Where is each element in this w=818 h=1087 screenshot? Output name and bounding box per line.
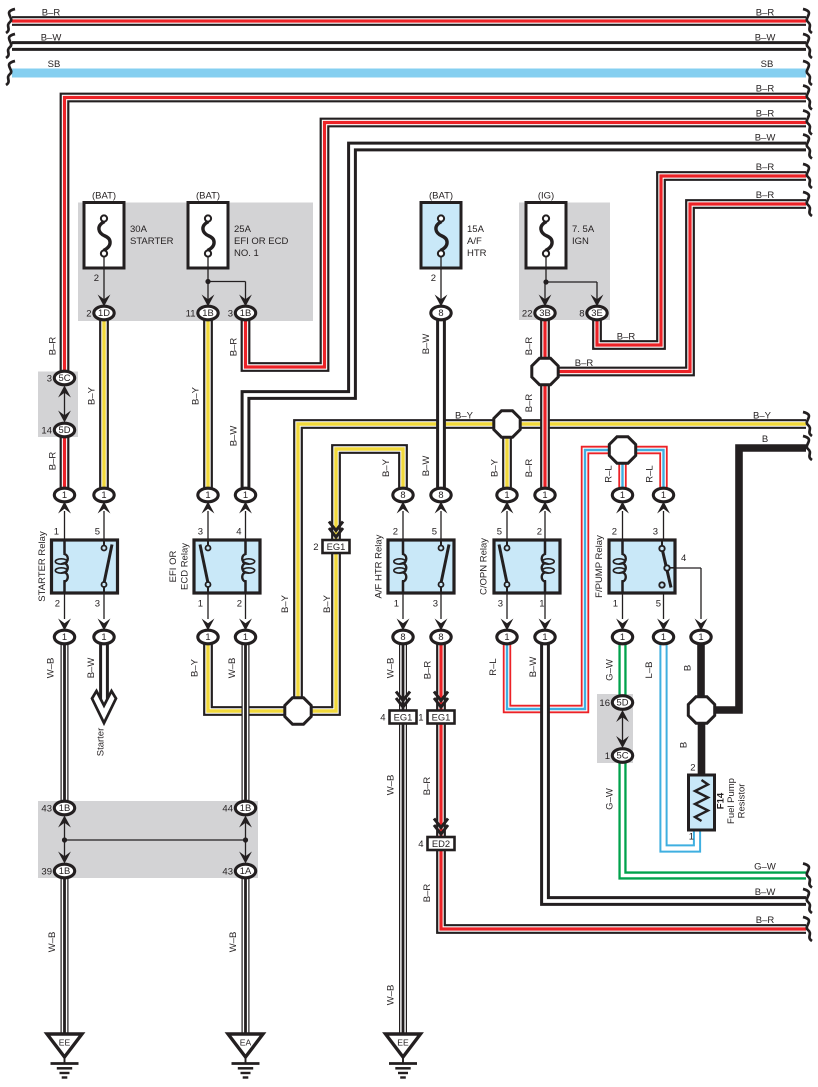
svg-text:B: B bbox=[683, 665, 694, 671]
svg-text:5: 5 bbox=[432, 527, 437, 538]
svg-text:NO. 1: NO. 1 bbox=[234, 248, 259, 259]
svg-text:A/F HTR Relay: A/F HTR Relay bbox=[374, 534, 385, 598]
wire B-Y from fuse 30A/1D bbox=[99, 318, 109, 495]
wire W-B A/F relay to EG1/ground bbox=[399, 640, 407, 1034]
svg-text:1: 1 bbox=[542, 489, 547, 500]
splice node splice E3 (R-L) bbox=[609, 437, 635, 463]
svg-text:15A: 15A bbox=[467, 224, 485, 235]
svg-text:1: 1 bbox=[539, 599, 544, 610]
svg-text:1B: 1B bbox=[59, 802, 70, 813]
svg-text:1: 1 bbox=[62, 631, 67, 642]
svg-text:3B: 3B bbox=[539, 307, 550, 318]
connector F/PUMP pin4 conn bbox=[691, 630, 711, 644]
connector 8 (fuse 15A out) bbox=[431, 306, 451, 320]
svg-text:7. 5A: 7. 5A bbox=[572, 224, 595, 235]
connector F/PUMP pin1 conn bbox=[612, 630, 632, 644]
wire B-R feed left (to 5C) bbox=[65, 98, 807, 373]
svg-text:SB: SB bbox=[48, 59, 61, 70]
svg-text:W–B: W–B bbox=[386, 658, 397, 679]
svg-text:3: 3 bbox=[228, 309, 233, 320]
svg-text:1: 1 bbox=[504, 489, 509, 500]
svg-text:Starter: Starter bbox=[96, 728, 107, 757]
svg-text:1: 1 bbox=[243, 631, 248, 642]
svg-text:W–B: W–B bbox=[228, 932, 239, 953]
svg-text:1: 1 bbox=[101, 489, 106, 500]
svg-text:W–B: W–B bbox=[46, 658, 57, 679]
svg-text:ECD Relay: ECD Relay bbox=[180, 543, 191, 590]
svg-text:5D: 5D bbox=[59, 424, 71, 435]
svg-text:2: 2 bbox=[86, 309, 91, 320]
svg-text:1: 1 bbox=[620, 631, 625, 642]
svg-text:1: 1 bbox=[394, 599, 399, 610]
svg-text:B–R: B–R bbox=[756, 190, 775, 201]
wire break marks right bbox=[803, 9, 812, 941]
svg-text:1D: 1D bbox=[98, 307, 110, 318]
wire B main feed bbox=[716, 448, 806, 710]
wire B splice to resistor bbox=[698, 721, 706, 777]
svg-text:2: 2 bbox=[55, 599, 60, 610]
svg-text:4: 4 bbox=[236, 527, 241, 538]
svg-text:B–W: B–W bbox=[41, 33, 62, 44]
svg-text:B–Y: B–Y bbox=[381, 458, 392, 477]
wire B-R feed (to IGN 3B splice) bbox=[545, 204, 806, 372]
wire G-W F/PUMP to 5D bbox=[618, 640, 626, 699]
connector 5D cavity 16 bbox=[612, 696, 632, 710]
svg-text:4: 4 bbox=[380, 713, 385, 724]
svg-text:25A: 25A bbox=[234, 224, 252, 235]
splice node splice E1 (B-R) bbox=[532, 358, 558, 384]
wire bottom link right bbox=[245, 820, 247, 859]
connector 1B cavity 3 bbox=[235, 306, 255, 320]
connector 1B cavity 39 bbox=[54, 864, 74, 878]
connector EFI pin2 conn bbox=[235, 630, 255, 644]
fuse F1 30A STARTER bbox=[84, 203, 124, 269]
svg-text:4: 4 bbox=[681, 553, 686, 564]
svg-text:B–Y: B–Y bbox=[322, 594, 333, 613]
wire B-R from IGN 3B bbox=[540, 318, 550, 495]
connector A/F pin3 conn bbox=[431, 630, 451, 644]
svg-text:14: 14 bbox=[41, 426, 52, 437]
svg-text:22: 22 bbox=[522, 309, 533, 320]
connector 1D (fuse 30A out) bbox=[94, 306, 114, 320]
svg-text:B–R: B–R bbox=[42, 8, 61, 19]
svg-text:R–L: R–L bbox=[488, 658, 499, 675]
svg-text:F/PUMP Relay: F/PUMP Relay bbox=[594, 535, 605, 598]
splice node splice E2 (B-Y) bbox=[494, 411, 520, 437]
svg-text:A/F: A/F bbox=[467, 236, 482, 247]
svg-text:G–W: G–W bbox=[754, 862, 776, 873]
svg-text:B–W: B–W bbox=[229, 426, 240, 447]
svg-text:39: 39 bbox=[41, 867, 52, 878]
svg-text:B–W: B–W bbox=[755, 133, 776, 144]
svg-text:R–L: R–L bbox=[645, 465, 656, 482]
wire B-R feed to EFI connector 1B bbox=[246, 123, 807, 368]
svg-text:W–B: W–B bbox=[227, 658, 238, 679]
svg-text:B–Y: B–Y bbox=[753, 411, 772, 422]
svg-text:2: 2 bbox=[612, 527, 617, 538]
svg-text:1: 1 bbox=[418, 713, 423, 724]
svg-text:EE: EE bbox=[59, 1038, 71, 1048]
connector EFI relay pin4 conn bbox=[235, 488, 255, 502]
svg-text:B–Y: B–Y bbox=[191, 386, 202, 405]
ground EA bbox=[228, 1034, 263, 1078]
svg-text:30A: 30A bbox=[130, 224, 148, 235]
svg-text:(IG): (IG) bbox=[538, 191, 554, 202]
connector F/PUMP relay pin3 conn bbox=[653, 488, 673, 502]
connector 1B cavity 43 bbox=[54, 801, 74, 815]
svg-text:EFI OR: EFI OR bbox=[168, 551, 179, 583]
svg-text:(BAT): (BAT) bbox=[92, 191, 116, 202]
wire R-L splice to F/PUMP 2 bbox=[618, 458, 626, 495]
svg-text:B–W: B–W bbox=[528, 657, 539, 678]
connector shade bottom link bbox=[38, 801, 258, 878]
svg-text:B–R: B–R bbox=[756, 84, 775, 95]
svg-text:16: 16 bbox=[599, 698, 610, 709]
svg-text:1: 1 bbox=[198, 599, 203, 610]
svg-text:B–R: B–R bbox=[756, 109, 775, 120]
connector EG1 pin 4 bbox=[390, 711, 417, 724]
F/PUMP switch with pin4 tap bbox=[663, 551, 672, 588]
connector starter relay pin1 conn bbox=[54, 488, 74, 502]
arrow into EG1 pin2 bbox=[329, 528, 343, 537]
svg-text:B–R: B–R bbox=[524, 459, 535, 478]
svg-text:43: 43 bbox=[222, 867, 233, 878]
wire fuse 15A tail to 8 bbox=[440, 256, 442, 300]
connector EG1 pin 2 bbox=[323, 540, 350, 553]
svg-text:C/OPN Relay: C/OPN Relay bbox=[479, 538, 490, 595]
connector starter pin2 conn bbox=[54, 630, 74, 644]
connector ED2 pin 4 bbox=[428, 837, 455, 850]
svg-text:L–B: L–B bbox=[644, 662, 655, 679]
svg-text:1A: 1A bbox=[240, 865, 252, 876]
svg-text:EA: EA bbox=[240, 1038, 252, 1048]
svg-text:1: 1 bbox=[243, 489, 248, 500]
svg-text:B: B bbox=[762, 434, 768, 445]
wire fuse IGN tails to 3B/3E bbox=[545, 256, 547, 282]
svg-text:B–Y: B–Y bbox=[280, 594, 291, 613]
relay C/OPN Relay bbox=[494, 540, 560, 593]
connector EFI relay pin3 conn bbox=[198, 488, 218, 502]
svg-text:B–R: B–R bbox=[524, 337, 535, 356]
svg-text:EG1: EG1 bbox=[432, 711, 451, 722]
svg-text:8: 8 bbox=[438, 489, 443, 500]
wire W-B starter relay to ground EE bbox=[61, 640, 69, 805]
ground EE right bbox=[386, 1034, 421, 1078]
wire SB bus bbox=[12, 69, 806, 78]
svg-text:11: 11 bbox=[186, 309, 196, 320]
svg-text:ED2: ED2 bbox=[432, 838, 450, 849]
connector shade 5D/5C right bbox=[597, 694, 633, 763]
svg-text:2: 2 bbox=[690, 763, 695, 774]
svg-text:B–Y: B–Y bbox=[190, 658, 201, 677]
connector A/F pin1 conn bbox=[393, 630, 413, 644]
svg-text:B–R: B–R bbox=[422, 884, 433, 903]
svg-text:B–Y: B–Y bbox=[490, 458, 501, 477]
svg-text:1: 1 bbox=[620, 489, 625, 500]
splice node splice E5 (B) bbox=[688, 697, 714, 723]
wire B F/PUMP 4 to splice bbox=[697, 640, 705, 700]
svg-text:B–W: B–W bbox=[421, 456, 432, 477]
fuse F3 15A A/F HTR bbox=[421, 203, 461, 269]
svg-text:1: 1 bbox=[613, 599, 618, 610]
svg-text:1: 1 bbox=[661, 489, 666, 500]
svg-text:3: 3 bbox=[433, 599, 438, 610]
wire B-W feed (to EFI relay 2) bbox=[246, 147, 807, 496]
connector 5D cavity 14 bbox=[54, 423, 74, 437]
arrow into EG1 pin1 bbox=[434, 698, 448, 707]
arrow into EG1 pin4 bbox=[396, 698, 410, 707]
wire B-W from fuse 15A bbox=[436, 318, 446, 495]
svg-text:1: 1 bbox=[62, 489, 67, 500]
wire B-R feed (to IGN 3E) bbox=[597, 176, 806, 345]
svg-text:43: 43 bbox=[41, 804, 52, 815]
connector 3E cavity 8 bbox=[587, 306, 607, 320]
svg-text:1: 1 bbox=[205, 631, 210, 642]
svg-text:5: 5 bbox=[497, 527, 502, 538]
svg-text:1: 1 bbox=[54, 527, 59, 538]
wire 5C-5D link bbox=[64, 390, 66, 418]
svg-text:3: 3 bbox=[47, 374, 52, 385]
svg-text:5: 5 bbox=[656, 599, 661, 610]
connector 1B cavity 11 bbox=[198, 306, 218, 320]
wire relay bottom leads bbox=[58, 593, 670, 631]
svg-text:HTR: HTR bbox=[467, 248, 487, 259]
svg-text:(BAT): (BAT) bbox=[429, 191, 453, 202]
svg-text:B–W: B–W bbox=[86, 658, 97, 679]
connector A/F relay pin5 conn bbox=[431, 488, 451, 502]
wire fuse 30A tail to 1D bbox=[103, 256, 105, 300]
svg-text:W–B: W–B bbox=[386, 985, 397, 1006]
svg-text:3: 3 bbox=[653, 527, 658, 538]
svg-text:1B: 1B bbox=[202, 307, 213, 318]
wire W-B EFI relay to ground EA bbox=[242, 640, 250, 805]
connector A/F relay pin2 conn bbox=[393, 488, 413, 502]
svg-text:1B: 1B bbox=[240, 802, 251, 813]
relay F/PUMP Relay bbox=[609, 540, 675, 593]
svg-text:STARTER Relay: STARTER Relay bbox=[37, 531, 48, 602]
wire 5D-5C link bbox=[622, 714, 624, 744]
arrow into ED2 pin4 bbox=[434, 825, 448, 834]
svg-text:B–R: B–R bbox=[422, 777, 433, 796]
connector EG1 pin 1 bbox=[428, 711, 455, 724]
svg-text:1B: 1B bbox=[59, 865, 70, 876]
svg-text:W–B: W–B bbox=[386, 775, 397, 796]
wire B-Y from fuse 25A/1B bbox=[203, 318, 213, 495]
svg-text:B–R: B–R bbox=[48, 452, 59, 471]
wire W-B lower mid to ground EA bbox=[242, 874, 250, 1034]
svg-text:5C: 5C bbox=[59, 372, 71, 383]
svg-text:2: 2 bbox=[94, 273, 99, 284]
svg-text:B–R: B–R bbox=[575, 358, 594, 369]
wire B-Y splice to C/OPN relay bbox=[502, 430, 512, 495]
connector 1B cavity 44 bbox=[235, 801, 255, 815]
svg-text:1B: 1B bbox=[240, 307, 251, 318]
connector shade 5C/5D left bbox=[38, 372, 78, 438]
svg-text:3E: 3E bbox=[591, 307, 602, 318]
fuse F4 7.5A IGN bbox=[526, 203, 566, 269]
wire relay top leads bbox=[58, 502, 670, 541]
svg-text:B–Y: B–Y bbox=[455, 411, 474, 422]
wire fuse 25A tails to 1B/1B bbox=[207, 256, 209, 282]
wire B-R 5D to relay connector bbox=[60, 436, 70, 495]
svg-text:B–W: B–W bbox=[421, 334, 432, 355]
svg-text:1: 1 bbox=[689, 832, 694, 843]
connector C/OPN relay pin5 conn bbox=[497, 488, 517, 502]
splice node splice E4 (B-Y) bbox=[285, 698, 311, 724]
svg-text:2: 2 bbox=[313, 542, 318, 553]
junction block shade (IGN fuse) bbox=[519, 203, 610, 321]
wire B-W bus bbox=[12, 41, 806, 51]
wire bottom link left bbox=[64, 820, 66, 859]
wire break marks left bbox=[6, 9, 15, 85]
svg-text:EE: EE bbox=[397, 1038, 409, 1048]
wire R-L C/OPN to splice bbox=[507, 450, 612, 709]
svg-text:EFI OR ECD: EFI OR ECD bbox=[234, 236, 289, 247]
junction block shade (fuses 30A/25A) bbox=[78, 203, 313, 322]
wire B-R A/F relay via EG1 ED2 bbox=[441, 640, 806, 929]
svg-text:2: 2 bbox=[431, 273, 436, 284]
connector 5C cavity 3 bbox=[54, 371, 74, 385]
connector C/OPN pin1 conn bbox=[535, 630, 555, 644]
connector F/PUMP pin5 conn bbox=[653, 630, 673, 644]
svg-text:B: B bbox=[679, 742, 690, 748]
svg-text:3: 3 bbox=[95, 599, 100, 610]
svg-text:F14: F14 bbox=[716, 792, 727, 809]
svg-text:B–W: B–W bbox=[755, 887, 776, 898]
svg-text:STARTER: STARTER bbox=[130, 236, 174, 247]
wire B-W C/OPN to right bbox=[545, 640, 806, 901]
svg-text:EG1: EG1 bbox=[327, 541, 346, 552]
connector EFI pin1 conn bbox=[198, 630, 218, 644]
ground EE left bbox=[47, 1034, 82, 1078]
svg-text:3: 3 bbox=[198, 527, 203, 538]
wire bottom link cross bbox=[65, 839, 246, 841]
svg-text:IGN: IGN bbox=[572, 236, 589, 247]
relay STARTER Relay bbox=[52, 540, 118, 593]
svg-text:B–W: B–W bbox=[755, 33, 776, 44]
svg-text:B–R: B–R bbox=[524, 394, 535, 413]
svg-text:44: 44 bbox=[222, 804, 233, 815]
svg-text:8: 8 bbox=[400, 631, 405, 642]
connector 5C cavity 1 bbox=[612, 749, 632, 763]
connector F/PUMP relay pin2 conn bbox=[612, 488, 632, 502]
svg-text:B–R: B–R bbox=[229, 338, 240, 357]
wire B-W to starter bbox=[99, 640, 109, 702]
wire L-B F/PUMP to resistor bbox=[664, 640, 698, 849]
svg-text:B–R: B–R bbox=[617, 332, 636, 343]
svg-text:1: 1 bbox=[542, 631, 547, 642]
Starter output arrow bbox=[92, 691, 116, 723]
connector starter relay pin5 conn bbox=[94, 488, 114, 502]
svg-text:G–W: G–W bbox=[605, 788, 616, 810]
connector 1A cavity 43 bbox=[235, 864, 255, 878]
svg-text:R–L: R–L bbox=[604, 465, 615, 482]
svg-text:8: 8 bbox=[438, 631, 443, 642]
wire G-W 5C to right bbox=[623, 759, 807, 876]
svg-text:B–R: B–R bbox=[756, 915, 775, 926]
svg-text:G–W: G–W bbox=[605, 659, 616, 681]
svg-text:1: 1 bbox=[504, 631, 509, 642]
svg-text:W–B: W–B bbox=[47, 932, 58, 953]
wire B-Y branch to A/F HTR relay via EG1 bbox=[312, 449, 403, 711]
connector C/OPN relay pin2 conn bbox=[535, 488, 555, 502]
svg-text:1: 1 bbox=[661, 631, 666, 642]
svg-text:5D: 5D bbox=[617, 697, 629, 708]
svg-text:3: 3 bbox=[498, 599, 503, 610]
relay A/F HTR Relay bbox=[388, 540, 454, 593]
svg-text:8: 8 bbox=[400, 489, 405, 500]
svg-text:1: 1 bbox=[101, 631, 106, 642]
svg-text:8: 8 bbox=[579, 309, 584, 320]
svg-text:SB: SB bbox=[761, 59, 774, 70]
svg-text:8: 8 bbox=[438, 307, 443, 318]
svg-text:B–R: B–R bbox=[756, 162, 775, 173]
connector 3B cavity 22 bbox=[535, 306, 555, 320]
svg-text:5: 5 bbox=[95, 527, 100, 538]
fuse F2 25A EFI OR ECD NO.1 bbox=[188, 203, 228, 269]
svg-text:5C: 5C bbox=[617, 750, 629, 761]
wire W-B lower left to ground EE bbox=[61, 874, 69, 1034]
svg-text:B–R: B–R bbox=[756, 8, 775, 19]
svg-text:Fuel Pump: Fuel Pump bbox=[726, 778, 737, 824]
svg-text:B–R: B–R bbox=[423, 661, 434, 680]
resistor F14 Fuel Pump Resistor bbox=[689, 775, 715, 830]
svg-text:1: 1 bbox=[698, 631, 703, 642]
svg-text:EG1: EG1 bbox=[394, 711, 413, 722]
wire R-L splice to F/PUMP 3 bbox=[633, 450, 664, 495]
svg-text:Resistor: Resistor bbox=[737, 784, 748, 819]
svg-text:2: 2 bbox=[537, 527, 542, 538]
wire F/PUMP pin4 lead bbox=[667, 567, 701, 569]
relay EFI OR ECD Relay bbox=[194, 540, 260, 593]
svg-text:(BAT): (BAT) bbox=[196, 191, 220, 202]
wire B-Y EFI relay to splice bbox=[208, 640, 288, 711]
wire B-R bus top bbox=[12, 16, 806, 26]
svg-text:1: 1 bbox=[205, 489, 210, 500]
svg-text:2: 2 bbox=[237, 599, 242, 610]
svg-text:B–Y: B–Y bbox=[87, 386, 98, 405]
connector C/OPN pin3 conn bbox=[497, 630, 517, 644]
wire B-Y main bus bbox=[298, 424, 806, 698]
svg-text:4: 4 bbox=[418, 839, 423, 850]
connector starter pin3 conn bbox=[94, 630, 114, 644]
svg-text:1: 1 bbox=[605, 751, 610, 762]
svg-text:B–R: B–R bbox=[48, 337, 59, 356]
svg-text:2: 2 bbox=[393, 527, 398, 538]
